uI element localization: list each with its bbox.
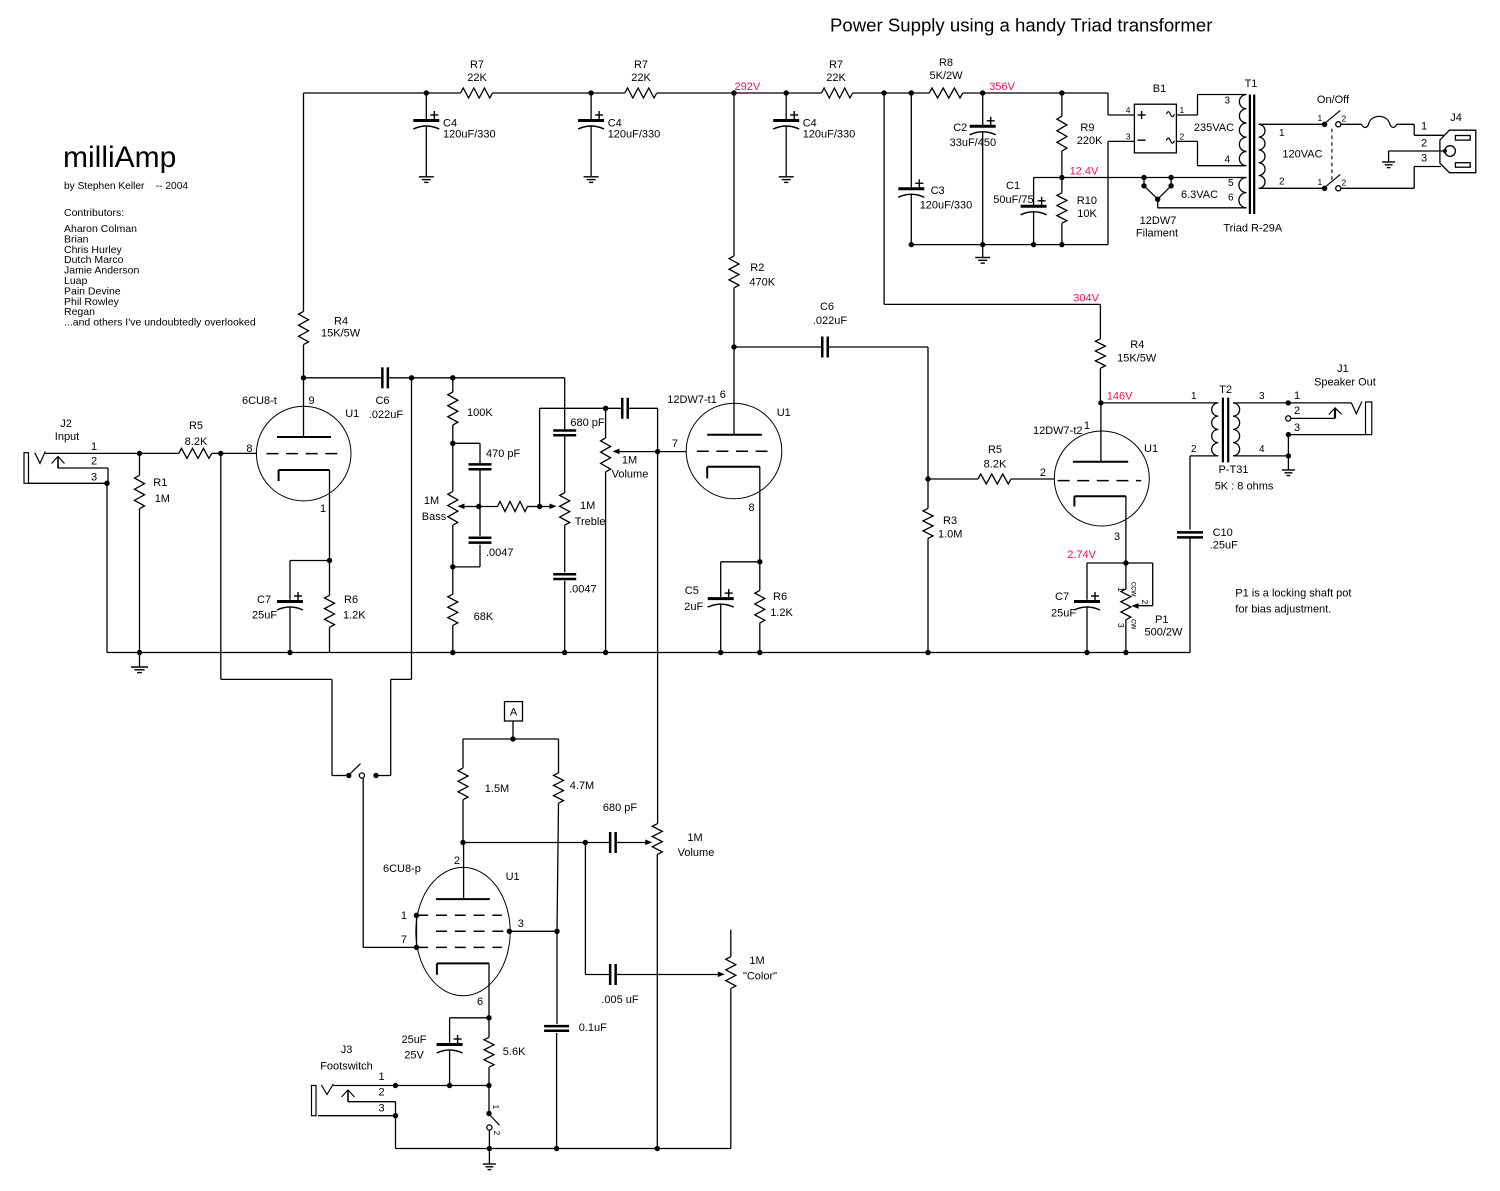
bridge rectifier B1 bbox=[1134, 104, 1176, 153]
6CU8-t plate bbox=[277, 436, 331, 438]
svg-text:C3: C3 bbox=[931, 185, 945, 197]
svg-text:A: A bbox=[510, 707, 518, 719]
svg-text:R4: R4 bbox=[1130, 339, 1144, 351]
resistor R7 (first) 22K bbox=[461, 88, 493, 98]
wire T2 pin4 / ground J1 bbox=[1233, 455, 1288, 457]
svg-text:22K: 22K bbox=[467, 72, 487, 84]
svg-text:U1: U1 bbox=[506, 871, 520, 883]
resistor R10 10K bbox=[1061, 178, 1063, 193]
svg-text:4.7M: 4.7M bbox=[570, 780, 594, 792]
svg-text:15K/5W: 15K/5W bbox=[321, 328, 361, 340]
svg-text:ccw: ccw bbox=[1130, 582, 1140, 598]
node / capacitor C4 (second) 120uF/330 bbox=[588, 90, 593, 95]
6CU8-t cathode bbox=[279, 469, 330, 471]
node cathode / wire to C7 bbox=[327, 558, 332, 563]
svg-text:milliAmp: milliAmp bbox=[63, 141, 176, 174]
svg-text:1.2K: 1.2K bbox=[343, 610, 366, 622]
svg-text:1: 1 bbox=[91, 441, 97, 453]
svg-text:6CU8-t: 6CU8-t bbox=[242, 395, 277, 407]
svg-text:6: 6 bbox=[720, 389, 726, 401]
svg-text:1: 1 bbox=[1191, 391, 1197, 402]
svg-text:680 pF: 680 pF bbox=[603, 802, 638, 814]
svg-text:Power Supply using a handy Tri: Power Supply using a handy Triad transfo… bbox=[830, 15, 1212, 36]
svg-text:1: 1 bbox=[1116, 587, 1126, 592]
svg-text:1: 1 bbox=[491, 1105, 501, 1110]
wire J3 pin3 sleeve bbox=[318, 1115, 396, 1117]
svg-text:25uF: 25uF bbox=[1051, 608, 1076, 620]
svg-text:5: 5 bbox=[1228, 178, 1234, 189]
svg-text:1: 1 bbox=[1294, 390, 1300, 402]
wire A to dividers bbox=[463, 738, 559, 740]
resistor R9 220K bbox=[1059, 90, 1064, 95]
svg-text:R3: R3 bbox=[943, 515, 957, 527]
svg-text:P1 is a locking shaft pot: P1 is a locking shaft pot bbox=[1235, 588, 1351, 600]
svg-text:C7: C7 bbox=[257, 594, 271, 606]
switch footswitch contact bbox=[488, 1086, 490, 1112]
svg-text:R6: R6 bbox=[773, 591, 787, 603]
svg-text:6: 6 bbox=[477, 996, 483, 1008]
svg-text:146V: 146V bbox=[1107, 391, 1133, 403]
node plate coupling / R4 plate resistor 15K/5W bbox=[299, 311, 309, 344]
svg-text:2: 2 bbox=[1421, 138, 1427, 150]
svg-text:680 pF: 680 pF bbox=[570, 417, 605, 429]
svg-text:R6: R6 bbox=[344, 594, 358, 606]
svg-text:R5: R5 bbox=[988, 444, 1002, 456]
svg-text:15K/5W: 15K/5W bbox=[1117, 353, 1157, 365]
svg-text:2: 2 bbox=[454, 855, 460, 867]
svg-text:356V: 356V bbox=[989, 81, 1015, 93]
svg-text:1: 1 bbox=[1279, 128, 1285, 139]
svg-text:220K: 220K bbox=[1077, 135, 1103, 147]
J1 pin2 switch bbox=[1286, 416, 1291, 421]
resistor R6 1.2K (6CU8-t cathode) bbox=[329, 561, 331, 596]
svg-text:3: 3 bbox=[1259, 391, 1265, 402]
svg-text:R10: R10 bbox=[1077, 195, 1097, 207]
12DW7-t1 cathode bbox=[707, 466, 760, 468]
svg-text:P1: P1 bbox=[1155, 614, 1168, 626]
wire J1 pin3 sleeve bbox=[1286, 432, 1291, 437]
svg-text:9: 9 bbox=[309, 395, 315, 407]
svg-text:R9: R9 bbox=[1080, 122, 1094, 134]
svg-text:8.2K: 8.2K bbox=[185, 436, 208, 448]
resistor R8 5K/2W bbox=[929, 88, 963, 98]
svg-text:12.4V: 12.4V bbox=[1070, 166, 1099, 178]
svg-text:P-T31: P-T31 bbox=[1219, 464, 1249, 476]
wire T2 pin2 down to C10 bbox=[1190, 455, 1218, 457]
svg-text:J4: J4 bbox=[1450, 112, 1462, 124]
wire volume wiper to 12DW7-t1 grid pin7 bbox=[658, 451, 687, 453]
svg-text:C7: C7 bbox=[1055, 591, 1069, 603]
6CU8-t grid (dashed) bbox=[267, 453, 342, 455]
svg-text:5K/2W: 5K/2W bbox=[929, 70, 963, 82]
resistor 68K bbox=[452, 567, 454, 594]
svg-text:On/Off: On/Off bbox=[1317, 94, 1350, 106]
wire B+ top rail segments bbox=[304, 92, 461, 94]
potentiometer 1M Treble bbox=[560, 493, 570, 526]
svg-text:R7: R7 bbox=[634, 59, 648, 71]
svg-text:1.2K: 1.2K bbox=[770, 607, 793, 619]
svg-text:cw: cw bbox=[1130, 619, 1140, 630]
svg-text:B1: B1 bbox=[1153, 83, 1166, 95]
tube 6CU8-t U1 bbox=[256, 406, 351, 501]
node bass wiper bbox=[476, 504, 481, 509]
node / capacitor C4 (first) 120uF/330 bbox=[424, 90, 429, 95]
svg-text:5.6K: 5.6K bbox=[503, 1046, 526, 1058]
svg-text:22K: 22K bbox=[826, 72, 846, 84]
svg-text:100K: 100K bbox=[467, 407, 493, 419]
capacitor C1 50uF/75 bbox=[1033, 178, 1035, 207]
wire fuse to J4 pin1 bbox=[1397, 123, 1415, 125]
svg-text:470K: 470K bbox=[749, 277, 775, 289]
wire T1 120VAC terminal 1 to switch bbox=[1259, 123, 1322, 125]
svg-text:Input: Input bbox=[55, 431, 79, 443]
svg-text:2: 2 bbox=[492, 1131, 502, 1136]
wire to bottom rail bbox=[488, 1130, 490, 1148]
svg-text:Speaker Out: Speaker Out bbox=[1314, 377, 1376, 389]
svg-text:1M: 1M bbox=[424, 495, 439, 507]
svg-text:470 pF: 470 pF bbox=[486, 448, 521, 460]
svg-text:4: 4 bbox=[1224, 155, 1230, 166]
svg-text:120uF/330: 120uF/330 bbox=[443, 129, 496, 141]
12DW7 filament connector bbox=[1141, 175, 1146, 180]
switch On/Off lower pole bbox=[1322, 186, 1327, 191]
6CU8-p grid2 (dashed) bbox=[436, 930, 509, 932]
node A box bbox=[505, 702, 523, 721]
node 146V bbox=[1098, 400, 1103, 405]
svg-text:10K: 10K bbox=[1077, 208, 1097, 220]
wire bypass riser (to switch) bbox=[411, 378, 413, 680]
12DW7-t2 grid (dashed) bbox=[1058, 480, 1142, 482]
svg-text:6.3VAC: 6.3VAC bbox=[1181, 189, 1218, 201]
svg-text:U1: U1 bbox=[777, 407, 791, 419]
wire J2 ground drop bbox=[106, 483, 108, 652]
svg-text:Footswitch: Footswitch bbox=[320, 1061, 373, 1073]
svg-text:1: 1 bbox=[401, 910, 407, 922]
ground PSU common bbox=[982, 245, 984, 258]
wire bottom rail bbox=[396, 1148, 731, 1150]
wire coupling to tone stack bbox=[450, 375, 455, 380]
svg-text:500/2W: 500/2W bbox=[1145, 627, 1184, 639]
capacitor 680 pF (power stage) bbox=[609, 832, 612, 853]
svg-text:R5: R5 bbox=[189, 420, 203, 432]
wire switch to fuse bbox=[1341, 123, 1362, 125]
svg-text:120uF/330: 120uF/330 bbox=[608, 129, 661, 141]
ground below C4 (first) bbox=[419, 176, 434, 178]
wire J2 pin3 sleeve bbox=[29, 482, 108, 484]
J2 pin2 switch arrow bbox=[57, 458, 59, 469]
wire T2 pin3 to J1 bbox=[1233, 402, 1351, 404]
svg-text:6CU8-p: 6CU8-p bbox=[383, 863, 421, 875]
ground below C4 (third) bbox=[779, 176, 794, 178]
svg-text:292V: 292V bbox=[735, 81, 761, 93]
svg-text:C1: C1 bbox=[1006, 180, 1020, 192]
svg-text:R1: R1 bbox=[153, 477, 167, 489]
capacitor .0047 (bass leg) bbox=[479, 507, 481, 536]
wire R5 to 6CU8-t grid pin 8 bbox=[212, 452, 257, 454]
wire J2 pin1 to R5 bbox=[45, 452, 178, 454]
wire 6CU8-t cathode pin1 down bbox=[329, 470, 331, 561]
svg-text:R8: R8 bbox=[939, 57, 953, 69]
svg-text:0.1uF: 0.1uF bbox=[579, 1022, 607, 1034]
svg-text:2: 2 bbox=[1180, 132, 1185, 142]
svg-text:4: 4 bbox=[1259, 444, 1265, 455]
svg-text:2: 2 bbox=[1140, 600, 1150, 605]
node 12.4V bbox=[1059, 175, 1064, 180]
wire 6CU8-p cathode pin6 bbox=[488, 963, 490, 1017]
wire T1 120VAC terminal 2 to switch bbox=[1259, 187, 1322, 189]
node bass bottom bbox=[450, 564, 455, 569]
svg-text:2uF: 2uF bbox=[684, 601, 703, 613]
svg-text:25uF: 25uF bbox=[401, 1034, 426, 1046]
svg-text:1M: 1M bbox=[687, 832, 702, 844]
svg-text:.005 uF: .005 uF bbox=[601, 994, 639, 1006]
svg-text:1: 1 bbox=[379, 1071, 385, 1083]
12DW7-t1 plate bbox=[707, 434, 762, 436]
dashed gang link On/Off bbox=[1331, 129, 1333, 181]
svg-text:3: 3 bbox=[379, 1103, 385, 1115]
node 356V / capacitor C2 33uF/450 bbox=[980, 90, 985, 95]
svg-text:1M: 1M bbox=[622, 455, 637, 467]
svg-text:U1: U1 bbox=[345, 408, 359, 420]
svg-text:C6: C6 bbox=[820, 301, 834, 313]
svg-text:Treble: Treble bbox=[575, 516, 606, 528]
wire PSU common bottom rail bbox=[911, 244, 1108, 246]
node / resistor R1 1M bbox=[137, 451, 142, 456]
svg-text:Contributors:: Contributors: bbox=[64, 207, 124, 219]
svg-text:C10: C10 bbox=[1213, 527, 1233, 539]
svg-text:2: 2 bbox=[1342, 114, 1347, 124]
svg-text:2: 2 bbox=[1342, 178, 1347, 188]
12DW7-t2 cathode bbox=[1074, 495, 1126, 497]
wire treble wiper riser bbox=[539, 408, 541, 506]
wire switch common to 6CU8-p grid bbox=[362, 778, 364, 947]
wire 12DW7-t2 cathode pin3 bbox=[1125, 496, 1127, 563]
node / capacitor C3 120uF/330 bbox=[909, 90, 914, 95]
6CU8-p cathode bbox=[437, 962, 489, 964]
svg-text:120uF/330: 120uF/330 bbox=[920, 200, 973, 212]
svg-text:J2: J2 bbox=[60, 418, 72, 430]
resistor R3 1.0M bbox=[927, 479, 929, 508]
ground at J4 pin2 bbox=[1382, 161, 1395, 163]
svg-text:1.0M: 1.0M bbox=[938, 529, 962, 541]
capacitor 680 pF (tone) bbox=[564, 378, 566, 431]
wire J3 pin1 bbox=[333, 1085, 449, 1087]
capacitor C6 .022uF (first) bbox=[304, 377, 383, 379]
resistor R5 8.2K (second) bbox=[928, 478, 978, 480]
svg-text:R2: R2 bbox=[750, 262, 764, 274]
potentiometer 1M Color bbox=[730, 930, 732, 957]
svg-text:120uF/330: 120uF/330 bbox=[803, 129, 856, 141]
svg-text:25V: 25V bbox=[404, 1050, 424, 1062]
svg-text:for bias adjustment.: for bias adjustment. bbox=[1235, 604, 1331, 616]
svg-text:1M: 1M bbox=[580, 500, 595, 512]
svg-text:7: 7 bbox=[672, 438, 678, 450]
wire 12DW7-t1 cathode pin8 bbox=[759, 467, 761, 562]
fuse bbox=[1362, 116, 1397, 127]
ground main rail bbox=[139, 653, 141, 668]
svg-text:C2: C2 bbox=[953, 122, 967, 134]
switch bypass bbox=[346, 773, 351, 778]
potentiometer 1M Volume (power stage) bbox=[652, 824, 662, 855]
arrow treble wiper bbox=[540, 506, 550, 508]
wire 12.4V heater line bbox=[1034, 177, 1247, 179]
resistor 1.5M bbox=[462, 739, 464, 768]
svg-text:...and others I've undoubtedly: ...and others I've undoubtedly overlooke… bbox=[64, 317, 256, 329]
wire main ground rail bbox=[107, 652, 1190, 654]
ground below C4 (second) bbox=[584, 176, 599, 178]
svg-text:J3: J3 bbox=[341, 1044, 353, 1056]
svg-text:235VAC: 235VAC bbox=[1194, 122, 1234, 134]
svg-text:3: 3 bbox=[1116, 623, 1126, 628]
capacitor 25uF 25V bbox=[450, 1017, 489, 1019]
svg-text:R7: R7 bbox=[470, 59, 484, 71]
svg-text:2: 2 bbox=[1191, 444, 1197, 455]
6CU8-p grid3 (dashed) bbox=[417, 946, 502, 948]
svg-text:U1: U1 bbox=[1144, 443, 1158, 455]
wire B1 pin1 to T1 terminal 3 bbox=[1176, 114, 1197, 116]
svg-text:2: 2 bbox=[91, 456, 97, 468]
svg-text:8: 8 bbox=[246, 443, 252, 455]
svg-text:2: 2 bbox=[379, 1087, 385, 1099]
svg-text:12DW7-t2: 12DW7-t2 bbox=[1033, 425, 1083, 437]
svg-text:2: 2 bbox=[1294, 405, 1300, 417]
resistor R7 (third) 22K bbox=[822, 88, 853, 98]
svg-text:4: 4 bbox=[1126, 105, 1131, 115]
wire lower switch to J4 pin3 bbox=[1341, 187, 1414, 189]
svg-text:.022uF: .022uF bbox=[369, 409, 404, 421]
svg-text:120VAC: 120VAC bbox=[1282, 149, 1322, 161]
wire J3 ground drop bbox=[395, 1116, 397, 1149]
capacitor 470 pF bbox=[453, 442, 480, 444]
potentiometer 1M Volume (preamp) bbox=[603, 406, 608, 411]
svg-text:1M: 1M bbox=[155, 493, 170, 505]
capacitor C7 25uF (bias) bbox=[1087, 562, 1126, 564]
wire .005 branch bbox=[584, 843, 586, 975]
ground J1 bbox=[1282, 469, 1295, 471]
wire long drop to bottom volume bbox=[657, 452, 659, 824]
capacitor C6 .022uF (second) bbox=[734, 346, 822, 348]
wire divider down / capacitor 0.1uF bbox=[556, 931, 558, 1024]
svg-text:.25uF: .25uF bbox=[1210, 540, 1238, 552]
svg-text:1: 1 bbox=[1180, 105, 1185, 115]
tube 6CU8-p U1 bbox=[416, 867, 510, 995]
node plate 6CU8-p bbox=[460, 840, 465, 845]
svg-text:Volume: Volume bbox=[612, 469, 649, 481]
svg-text:C6: C6 bbox=[375, 395, 389, 407]
6CU8-p plate bbox=[436, 898, 490, 900]
capacitor C5 2uF bbox=[721, 561, 760, 563]
wire J3 pin2 to pin3 bbox=[348, 1101, 396, 1103]
svg-text:Volume: Volume bbox=[678, 847, 715, 859]
ground bottom rail bbox=[488, 1149, 490, 1165]
svg-text:68K: 68K bbox=[474, 611, 494, 623]
resistor 4.7M bbox=[558, 739, 560, 773]
svg-text:R7: R7 bbox=[829, 59, 843, 71]
resistor R2 470K bbox=[733, 93, 735, 256]
svg-text:2: 2 bbox=[1279, 177, 1285, 188]
svg-text:1: 1 bbox=[1421, 121, 1427, 133]
tube 12DW7-t1 U1 bbox=[686, 403, 782, 499]
svg-text:Filament: Filament bbox=[1136, 228, 1178, 240]
svg-text:12DW7-t1: 12DW7-t1 bbox=[667, 394, 717, 406]
svg-text:T2: T2 bbox=[1219, 384, 1232, 396]
svg-text:2: 2 bbox=[1040, 467, 1046, 479]
svg-text:3: 3 bbox=[518, 918, 524, 930]
svg-text:Bass: Bass bbox=[422, 511, 447, 523]
svg-text:by Stephen Keller -- 2004: by Stephen Keller -- 2004 bbox=[64, 181, 188, 192]
wire 6CU8-p pins 1-7 tie bbox=[416, 915, 418, 947]
wire J2 pin2 to pin3 bbox=[58, 467, 108, 469]
resistor R4 (power) 15K/5W bbox=[1099, 304, 1101, 338]
wire bypass lower run bbox=[221, 678, 332, 680]
svg-text:1.5M: 1.5M bbox=[485, 783, 509, 795]
svg-text:1: 1 bbox=[1084, 420, 1090, 432]
wire plate node to 680pF bbox=[463, 842, 610, 844]
12DW7-t2 plate bbox=[1073, 461, 1128, 463]
svg-text:.0047: .0047 bbox=[569, 584, 597, 596]
svg-text:1: 1 bbox=[320, 503, 326, 515]
svg-text:6: 6 bbox=[1228, 193, 1234, 204]
svg-text:1: 1 bbox=[1318, 177, 1323, 187]
wire bypass right riser bbox=[390, 679, 392, 775]
svg-text:3: 3 bbox=[1126, 132, 1131, 142]
6CU8-p grid1 (dashed) bbox=[417, 914, 502, 916]
svg-text:22K: 22K bbox=[631, 72, 651, 84]
resistor 5.6K bbox=[488, 1018, 490, 1038]
potentiometer P1 500/2W bbox=[1125, 563, 1127, 589]
wire J4 pin2 to ground bbox=[1389, 150, 1445, 152]
svg-text:2.74V: 2.74V bbox=[1067, 549, 1096, 561]
svg-text:3: 3 bbox=[91, 472, 97, 484]
node R3/R5 junction bbox=[925, 476, 930, 481]
wire bypass drop from grid node bbox=[220, 453, 222, 679]
resistor 100K (tone) bbox=[452, 378, 454, 392]
wire 304V run bbox=[884, 303, 1100, 305]
svg-text:3: 3 bbox=[1114, 531, 1120, 543]
svg-text:25uF: 25uF bbox=[252, 610, 277, 622]
wire 6CU8-p pin3 to divider bbox=[509, 930, 557, 932]
resistor R6 1.2K (12DW7-t1) bbox=[759, 562, 761, 591]
svg-text:"Color": "Color" bbox=[743, 971, 777, 983]
svg-text:.022uF: .022uF bbox=[813, 315, 848, 327]
capacitor coupling (to power stage) bbox=[606, 407, 623, 409]
node / capacitor C4 (third) 120uF/330 bbox=[784, 90, 789, 95]
svg-text:1M: 1M bbox=[749, 955, 764, 967]
node treble wiper bbox=[537, 504, 542, 509]
svg-text:C5: C5 bbox=[685, 585, 699, 597]
svg-text:Triad R-29A: Triad R-29A bbox=[1223, 223, 1283, 235]
node 292V bbox=[731, 90, 736, 95]
svg-text:304V: 304V bbox=[1073, 293, 1099, 305]
resistor R5 8.2K (input) bbox=[179, 448, 212, 458]
svg-text:R4: R4 bbox=[334, 316, 348, 328]
capacitor .005 uF bbox=[609, 964, 612, 985]
transformer T2 P-T31 bbox=[1101, 402, 1218, 404]
12DW7-t1 grid (dashed) bbox=[697, 450, 773, 452]
svg-text:50uF/75: 50uF/75 bbox=[993, 194, 1033, 206]
resistor R7 (second) 22K bbox=[625, 88, 657, 98]
node 304V branch from rail bbox=[881, 90, 886, 95]
node below 100K bbox=[450, 441, 455, 446]
svg-text:3: 3 bbox=[1224, 96, 1230, 107]
wire B1 pin2 to T1 terminal 4 bbox=[1176, 140, 1197, 142]
svg-text:3: 3 bbox=[1421, 153, 1427, 165]
tube 12DW7-t2 U1 bbox=[1054, 431, 1149, 526]
capacitor C10 .25uF bbox=[1177, 531, 1203, 534]
wire left B+ drop to R4 bbox=[303, 93, 305, 311]
resistor slope (unlabeled) bbox=[480, 506, 498, 508]
svg-text:33uF/450: 33uF/450 bbox=[950, 137, 996, 149]
